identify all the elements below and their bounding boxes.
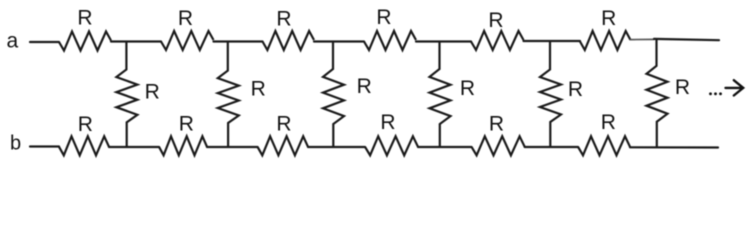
svg-text:R: R <box>380 111 395 134</box>
wire bottom rail seg 7 <box>630 146 718 148</box>
resistor R shunt-5 (with leads to rails) <box>540 42 561 148</box>
svg-text:R: R <box>145 81 160 104</box>
resistor R shunt-4 (with leads to rails) <box>430 42 451 148</box>
svg-text:R: R <box>568 78 583 101</box>
wire bottom rail seg 6 <box>525 146 578 148</box>
svg-text:R: R <box>357 75 372 98</box>
resistor R bottom-6 <box>578 136 630 155</box>
svg-text:R: R <box>489 112 504 135</box>
resistor R top-2 <box>161 31 214 50</box>
resistor R shunt-3 (with leads to rails) <box>323 42 344 148</box>
resistor R shunt-1 (with leads to rails) <box>116 42 137 148</box>
svg-text:R: R <box>77 6 92 29</box>
wire top rail seg 5 <box>416 40 471 42</box>
resistor R top-3 <box>263 31 315 50</box>
svg-text:a: a <box>7 30 19 53</box>
resistor R bottom-4 <box>365 136 418 155</box>
wire top rail seg 7b <box>654 39 719 40</box>
resistor R bottom-5 <box>472 136 525 155</box>
ellipsis dots (ladder continues) <box>709 92 712 95</box>
wire bottom rail seg 3 <box>207 146 258 148</box>
wire b to R bottom-1 <box>30 145 59 147</box>
resistor R bottom-3 <box>258 136 309 155</box>
svg-text:b: b <box>10 133 21 155</box>
svg-text:R: R <box>601 7 616 30</box>
svg-text:R: R <box>78 113 93 136</box>
svg-text:R: R <box>178 7 193 30</box>
wire top rail seg 6 <box>524 40 581 42</box>
svg-text:R: R <box>460 77 475 100</box>
svg-text:R: R <box>488 9 503 32</box>
wire bottom rail seg 5 <box>418 146 472 148</box>
svg-text:R: R <box>251 78 266 101</box>
resistor R top-1 <box>59 32 111 51</box>
wire top rail seg 4 <box>314 40 364 42</box>
wire bottom rail seg 2 <box>109 146 159 148</box>
svg-text:R: R <box>601 111 616 134</box>
svg-text:R: R <box>276 8 291 31</box>
svg-text:R: R <box>376 6 391 29</box>
arrow (to infinity) <box>726 80 744 95</box>
resistor R top-6 <box>580 31 631 50</box>
wire bottom rail seg 4 <box>308 146 365 148</box>
svg-text:R: R <box>276 113 291 136</box>
resistor R shunt-2 (with leads to rails) <box>218 42 239 148</box>
wire top rail seg 3 <box>214 40 263 42</box>
wire top rail seg 7a (light) <box>631 38 655 40</box>
wire top rail seg 2 <box>111 40 161 42</box>
resistor R top-5 <box>471 31 524 50</box>
svg-text:R: R <box>179 113 194 136</box>
resistor R top-4 <box>364 31 416 50</box>
resistor R shunt-6 (with leads to rails) <box>647 40 668 147</box>
resistor R bottom-2 <box>159 136 207 155</box>
wire a to R top-1 <box>30 41 59 43</box>
resistor R bottom-1 <box>59 136 109 155</box>
svg-text:R: R <box>675 76 690 99</box>
